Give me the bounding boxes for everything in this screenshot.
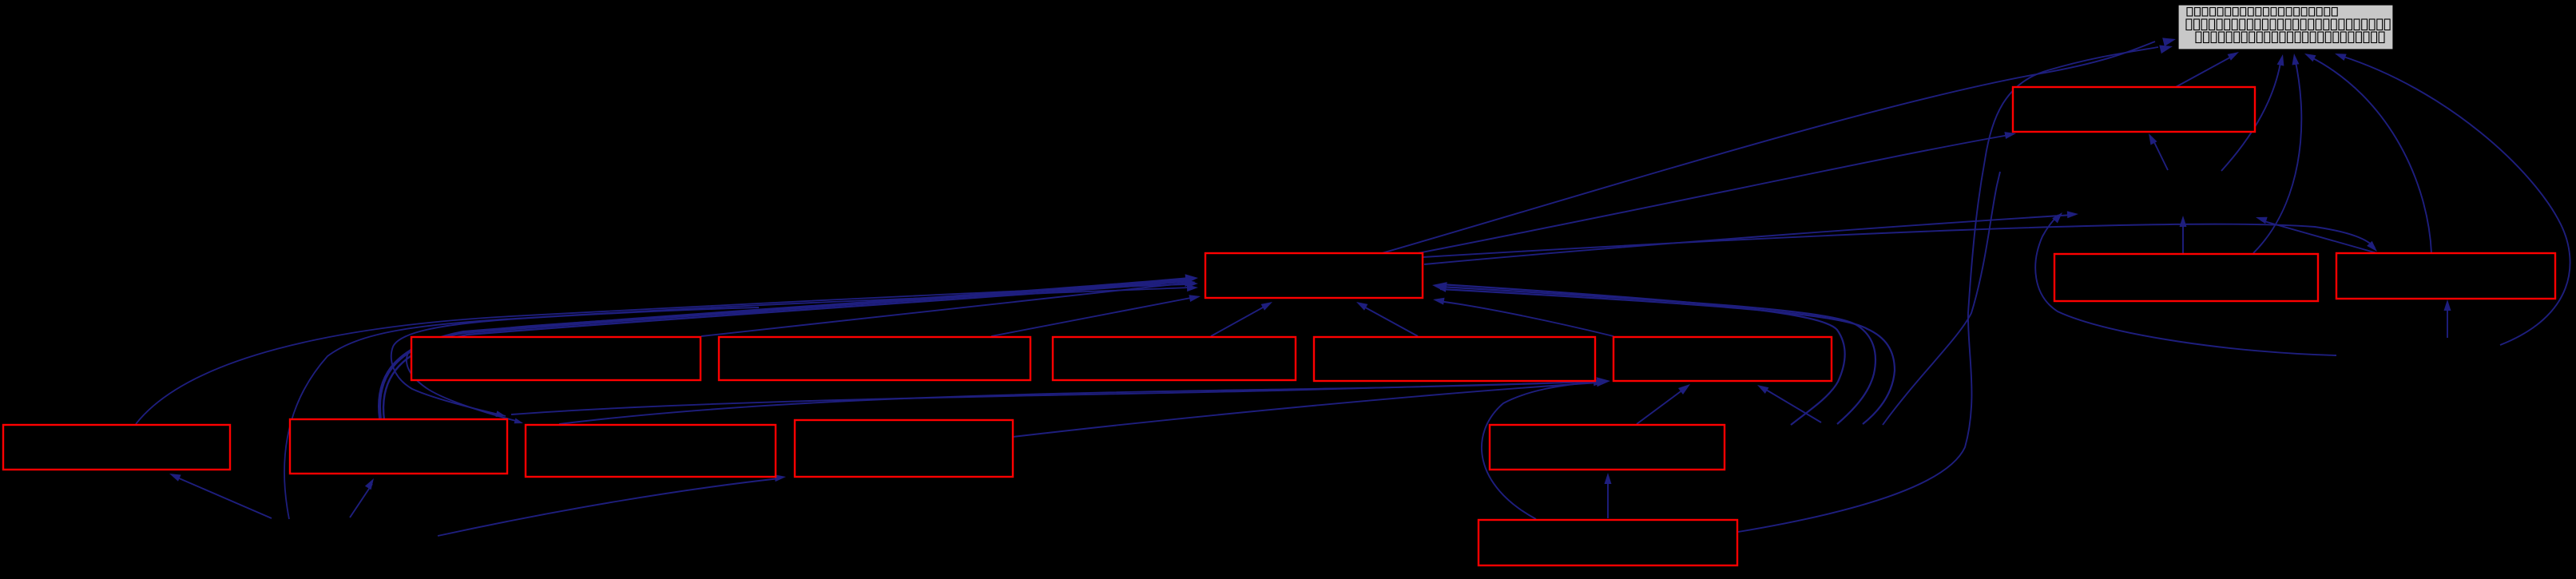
arrowhead into B2 corner (514, 418, 524, 424)
node N bottom file (1479, 520, 1737, 565)
arrowhead B3 to A5 (1594, 379, 1605, 386)
arrowhead B1 to H (1185, 274, 1198, 284)
arrowhead bundle into H right (1432, 282, 1447, 292)
edge T to G (2174, 54, 2236, 88)
root label tofu glyph rows (2187, 8, 2193, 17)
node A4 (1314, 337, 1595, 381)
arrowhead R2 to G (2304, 54, 2316, 61)
edge hidden-right2 to H wrap2 (1440, 287, 1875, 424)
edge A3 to H (1211, 303, 1270, 336)
edge hidden-W to G (2221, 58, 2281, 171)
edge A5 to H (1439, 301, 1613, 336)
edge hidden-right4 up joining N curve (1883, 172, 2000, 425)
edge corridor B1 to A5 long (511, 382, 1598, 414)
arrowhead B0 to H (1187, 280, 1198, 288)
edge hidden-X to R2 (2447, 304, 2448, 338)
edge hidden-bottom to H (284, 288, 1189, 519)
edge N to M (1607, 478, 1609, 518)
edge R1 to hidden-W (2182, 220, 2184, 253)
arrowhead N to M (1605, 473, 1612, 484)
node M (1490, 425, 1725, 470)
edge H to T (1418, 135, 2009, 253)
node A3 (1053, 337, 1296, 380)
arrowhead H to G (2162, 38, 2176, 46)
arrowhead H to hidden-W (2067, 211, 2078, 218)
edge A4 to H (1359, 304, 1418, 336)
edge N to A5 (1482, 382, 1598, 519)
arrowhead hidden-W to G (2277, 54, 2284, 66)
arrowhead N to G (2159, 46, 2173, 54)
edge R2 to G (2310, 57, 2431, 253)
arrowhead hidden-W to T (2149, 133, 2157, 145)
edge hidden-W to T (2152, 137, 2168, 170)
arrowhead hidden-bottom to B3 (775, 474, 786, 482)
edge B2 to A5 (559, 381, 1598, 424)
edge bundle curl to B2 corner (407, 311, 767, 422)
node G root file grey box (2178, 5, 2393, 50)
arrowhead H to T (2004, 132, 2016, 139)
edge R2 to hidden-W (2261, 220, 2377, 253)
arrowhead H to R2 (2367, 241, 2377, 252)
arrowhead hidden-X to hidden-W (2052, 212, 2062, 223)
edge hidden-right3 to H wrap3 (1440, 289, 1895, 424)
edge M to A5 (1637, 387, 1686, 424)
edge B1 to H thick (379, 279, 1189, 418)
edge hidden-bottom to B0 (177, 478, 272, 518)
edge H to hidden-W (1424, 215, 2073, 264)
node B1 (290, 419, 507, 474)
edge B1 to H thick twin (383, 281, 1189, 420)
arrowhead hidden-X to G (2335, 54, 2347, 61)
arrowhead T to G (2228, 52, 2239, 61)
edge N to G big curve (1738, 47, 2158, 532)
arrowhead into A5 corner (1597, 377, 1610, 387)
edge R1 to G (2253, 58, 2301, 253)
node A5 (1613, 337, 1832, 381)
edge B3 to A5 (1013, 383, 1599, 437)
arrowhead hidden-bottom to H (1187, 284, 1198, 291)
node T top-right file (2013, 87, 2255, 132)
edge B0 to H (136, 284, 1189, 424)
node A1 (411, 337, 701, 380)
arrowhead into B1 corner (495, 410, 506, 417)
arrowhead A5 to H (1433, 298, 1445, 305)
node R2 far-right file (2336, 253, 2555, 299)
arrowhead R1 to G (2292, 54, 2300, 65)
arrowhead A1 to H (1185, 280, 1196, 287)
edge hidden-right1 to H wrap1 (1440, 284, 1845, 425)
arrowhead R2 to hidden-W (2256, 217, 2268, 224)
arrowhead hidden-X to R2 (2444, 299, 2451, 311)
edge A2 to H (991, 297, 1195, 336)
node H central hub file (1205, 253, 1423, 298)
edge hidden-X to hidden-W around R1 (2035, 215, 2336, 355)
edge hidden-bottom to B3 (438, 478, 780, 536)
arrowhead hidden-bottom to B0 (169, 474, 181, 482)
edge bundle curl to B1 corner (391, 307, 759, 416)
edge hidden-bottom to B1 (350, 484, 372, 518)
arrowhead R1 to hidden-W (2180, 216, 2187, 227)
arrowhead M to A5 (1678, 384, 1690, 395)
node R1 right file (2054, 254, 2318, 301)
arrowhead A2 to H (1189, 295, 1201, 302)
edge hidden-X to G far right curve (2341, 56, 2570, 345)
arrowhead hidden-right1 to A5 (1757, 385, 1768, 394)
node B0 far-left file (3, 425, 230, 470)
arrowhead A3 to H (1261, 302, 1272, 311)
node A2 (719, 337, 1030, 380)
edge hidden-right1 to A5 (1762, 387, 1821, 422)
arrowhead hidden-bottom to B1 (365, 478, 374, 490)
edge H to R2 (1423, 224, 2375, 257)
edge H to G via left (1382, 42, 2155, 253)
node B3 (795, 420, 1013, 477)
arrowhead A4 to H (1356, 302, 1367, 311)
node B2 (526, 425, 776, 477)
edge A1 to H (701, 283, 1189, 336)
